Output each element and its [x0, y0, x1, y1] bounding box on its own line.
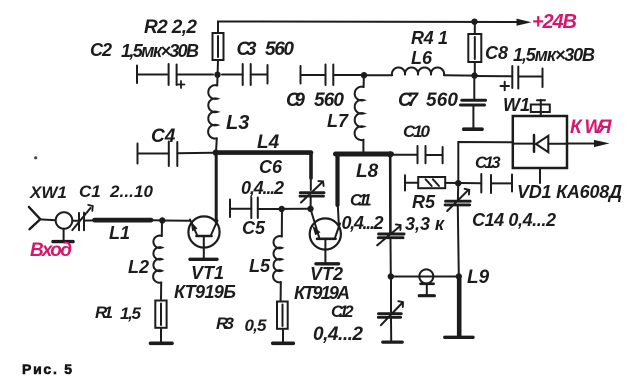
svg-text:Вход: Вход — [30, 240, 72, 261]
capacitor C9 — [301, 65, 365, 86]
stray dot — [34, 156, 37, 159]
svg-text:560: 560 — [314, 90, 344, 111]
node C9/L6/L7 junction — [361, 72, 367, 78]
node R4/C8/C7 junction — [471, 72, 477, 78]
node L1/L2/VT1 junction — [159, 217, 165, 223]
ground under XW1 — [53, 240, 73, 243]
output arrow to WA — [567, 140, 609, 147]
node VT2 emitter junction — [307, 206, 313, 212]
ground under R1 — [151, 341, 173, 345]
diode module box VD1 — [513, 116, 567, 183]
ground under VT2 base — [316, 262, 339, 265]
capacitor C5 — [230, 198, 282, 219]
svg-text:0,4...2: 0,4...2 — [313, 324, 363, 345]
resistor R5 — [405, 175, 456, 190]
trimmer C1 — [72, 205, 94, 230]
svg-text:1,5мк×30В: 1,5мк×30В — [121, 41, 199, 61]
svg-text:R2 2,2: R2 2,2 — [144, 17, 197, 38]
trimmer C11 — [377, 224, 404, 276]
svg-text:VT2: VT2 — [310, 264, 343, 284]
svg-text:L4: L4 — [257, 132, 280, 153]
wire C5 node to VT2 emitter node — [282, 208, 311, 210]
svg-text:L5: L5 — [249, 256, 271, 276]
feedthrough terminal circle — [419, 269, 433, 294]
svg-text:L7: L7 — [327, 111, 349, 131]
capacitor C10 — [392, 146, 443, 163]
capacitor C3 — [222, 64, 268, 85]
capacitor C7 — [461, 78, 486, 127]
wire to VT1 emitter — [162, 220, 190, 222]
resistor R4 — [468, 24, 481, 76]
capacitor C13 — [460, 174, 512, 193]
node top rail junction — [471, 19, 477, 25]
ground under feedthrough terminal — [419, 294, 434, 297]
inductor L7 — [355, 78, 364, 152]
svg-text:L2: L2 — [128, 257, 149, 277]
svg-text:+24В: +24В — [532, 11, 577, 33]
svg-text:C3: C3 — [237, 39, 257, 60]
inductor L3 — [208, 77, 217, 153]
svg-text:C9: C9 — [286, 90, 305, 111]
capacitor C8 — [475, 66, 543, 90]
svg-text:W1: W1 — [503, 95, 530, 115]
transistor VT2 — [310, 205, 341, 262]
svg-text:2...10: 2...10 — [109, 182, 154, 201]
svg-text:VD1 КА608Д: VD1 КА608Д — [517, 182, 622, 202]
svg-text:Рис. 5: Рис. 5 — [22, 361, 72, 377]
wire VD1 column — [458, 142, 513, 181]
resistor R3 — [277, 282, 288, 342]
node C5/L5 junction — [279, 206, 285, 212]
ground under C7 — [464, 127, 482, 131]
node C11/C12 junction — [388, 273, 394, 279]
svg-text:R4 1: R4 1 — [411, 28, 448, 48]
inductor L2 — [153, 221, 162, 299]
svg-text:C6: C6 — [259, 157, 283, 177]
trimmer C6 — [300, 181, 324, 208]
svg-text:C2: C2 — [90, 40, 112, 60]
svg-text:560: 560 — [265, 39, 294, 60]
svg-text:КТ919А: КТ919А — [294, 283, 350, 303]
svg-text:КТ919Б: КТ919Б — [174, 282, 236, 302]
connector XW1 — [29, 207, 72, 240]
svg-text:L1: L1 — [109, 223, 130, 243]
svg-text:0,5: 0,5 — [245, 316, 268, 335]
+24V arrowhead — [517, 19, 532, 26]
inductor L4 strip line — [216, 153, 311, 190]
transistor VT1 — [188, 153, 219, 258]
svg-text:C10: C10 — [403, 122, 431, 141]
svg-text:L9: L9 — [467, 267, 490, 288]
node L9 junction — [456, 273, 462, 279]
wire top +24V rail — [218, 22, 517, 34]
svg-text:C12: C12 — [331, 303, 354, 321]
feedthrough capacitor W1 — [531, 100, 550, 116]
svg-text:C4: C4 — [151, 126, 176, 147]
svg-text:L8: L8 — [356, 161, 379, 182]
capacitor C2 — [137, 64, 213, 88]
inductor L1 strip line — [95, 218, 163, 223]
ground under R3 — [273, 341, 294, 345]
svg-text:L3: L3 — [226, 112, 249, 134]
ground under C12 — [383, 341, 402, 344]
svg-text:C11: C11 — [350, 192, 372, 210]
trimmer C12 — [378, 277, 403, 341]
svg-text:C14 0,4...2: C14 0,4...2 — [472, 210, 556, 230]
node R5/C13 junction — [455, 180, 461, 186]
svg-text:3,3 к: 3,3 к — [405, 214, 445, 234]
wire bottom row — [391, 276, 459, 278]
svg-text:L6: L6 — [411, 48, 433, 68]
svg-text:XW1: XW1 — [29, 183, 67, 202]
svg-text:0,4...2: 0,4...2 — [241, 178, 284, 198]
ground under VT1 base — [190, 258, 217, 261]
inductor L9 strip line — [457, 277, 462, 336]
svg-text:R1: R1 — [95, 303, 113, 322]
svg-text:R5: R5 — [412, 192, 436, 212]
node main rail left — [214, 72, 220, 78]
svg-text:C13: C13 — [475, 154, 501, 172]
svg-text:C7: C7 — [398, 90, 419, 111]
svg-text:0,4...2: 0,4...2 — [342, 213, 384, 233]
svg-text:C1: C1 — [79, 182, 101, 201]
capacitor C4 — [138, 142, 214, 167]
svg-text:1,5мк×30В: 1,5мк×30В — [513, 45, 595, 65]
svg-text:VT1: VT1 — [191, 263, 224, 283]
inductor L6 — [364, 67, 475, 75]
node L4 junction — [213, 149, 219, 155]
svg-text:1,5: 1,5 — [120, 304, 142, 323]
inductor L5 — [273, 209, 282, 282]
svg-text:К: К — [570, 117, 583, 138]
resistor R2 — [213, 33, 224, 75]
svg-text:560: 560 — [426, 90, 458, 111]
svg-text:R3: R3 — [216, 314, 235, 333]
trimmer C14 — [445, 186, 470, 277]
ground under L9 — [445, 336, 473, 339]
svg-text:C8: C8 — [485, 43, 508, 63]
svg-text:C5: C5 — [242, 218, 266, 238]
resistor R1 — [155, 301, 166, 342]
svg-text:WЯ: WЯ — [585, 117, 613, 138]
inductor L8 strip line — [336, 154, 392, 233]
node L8 corner — [387, 151, 393, 157]
